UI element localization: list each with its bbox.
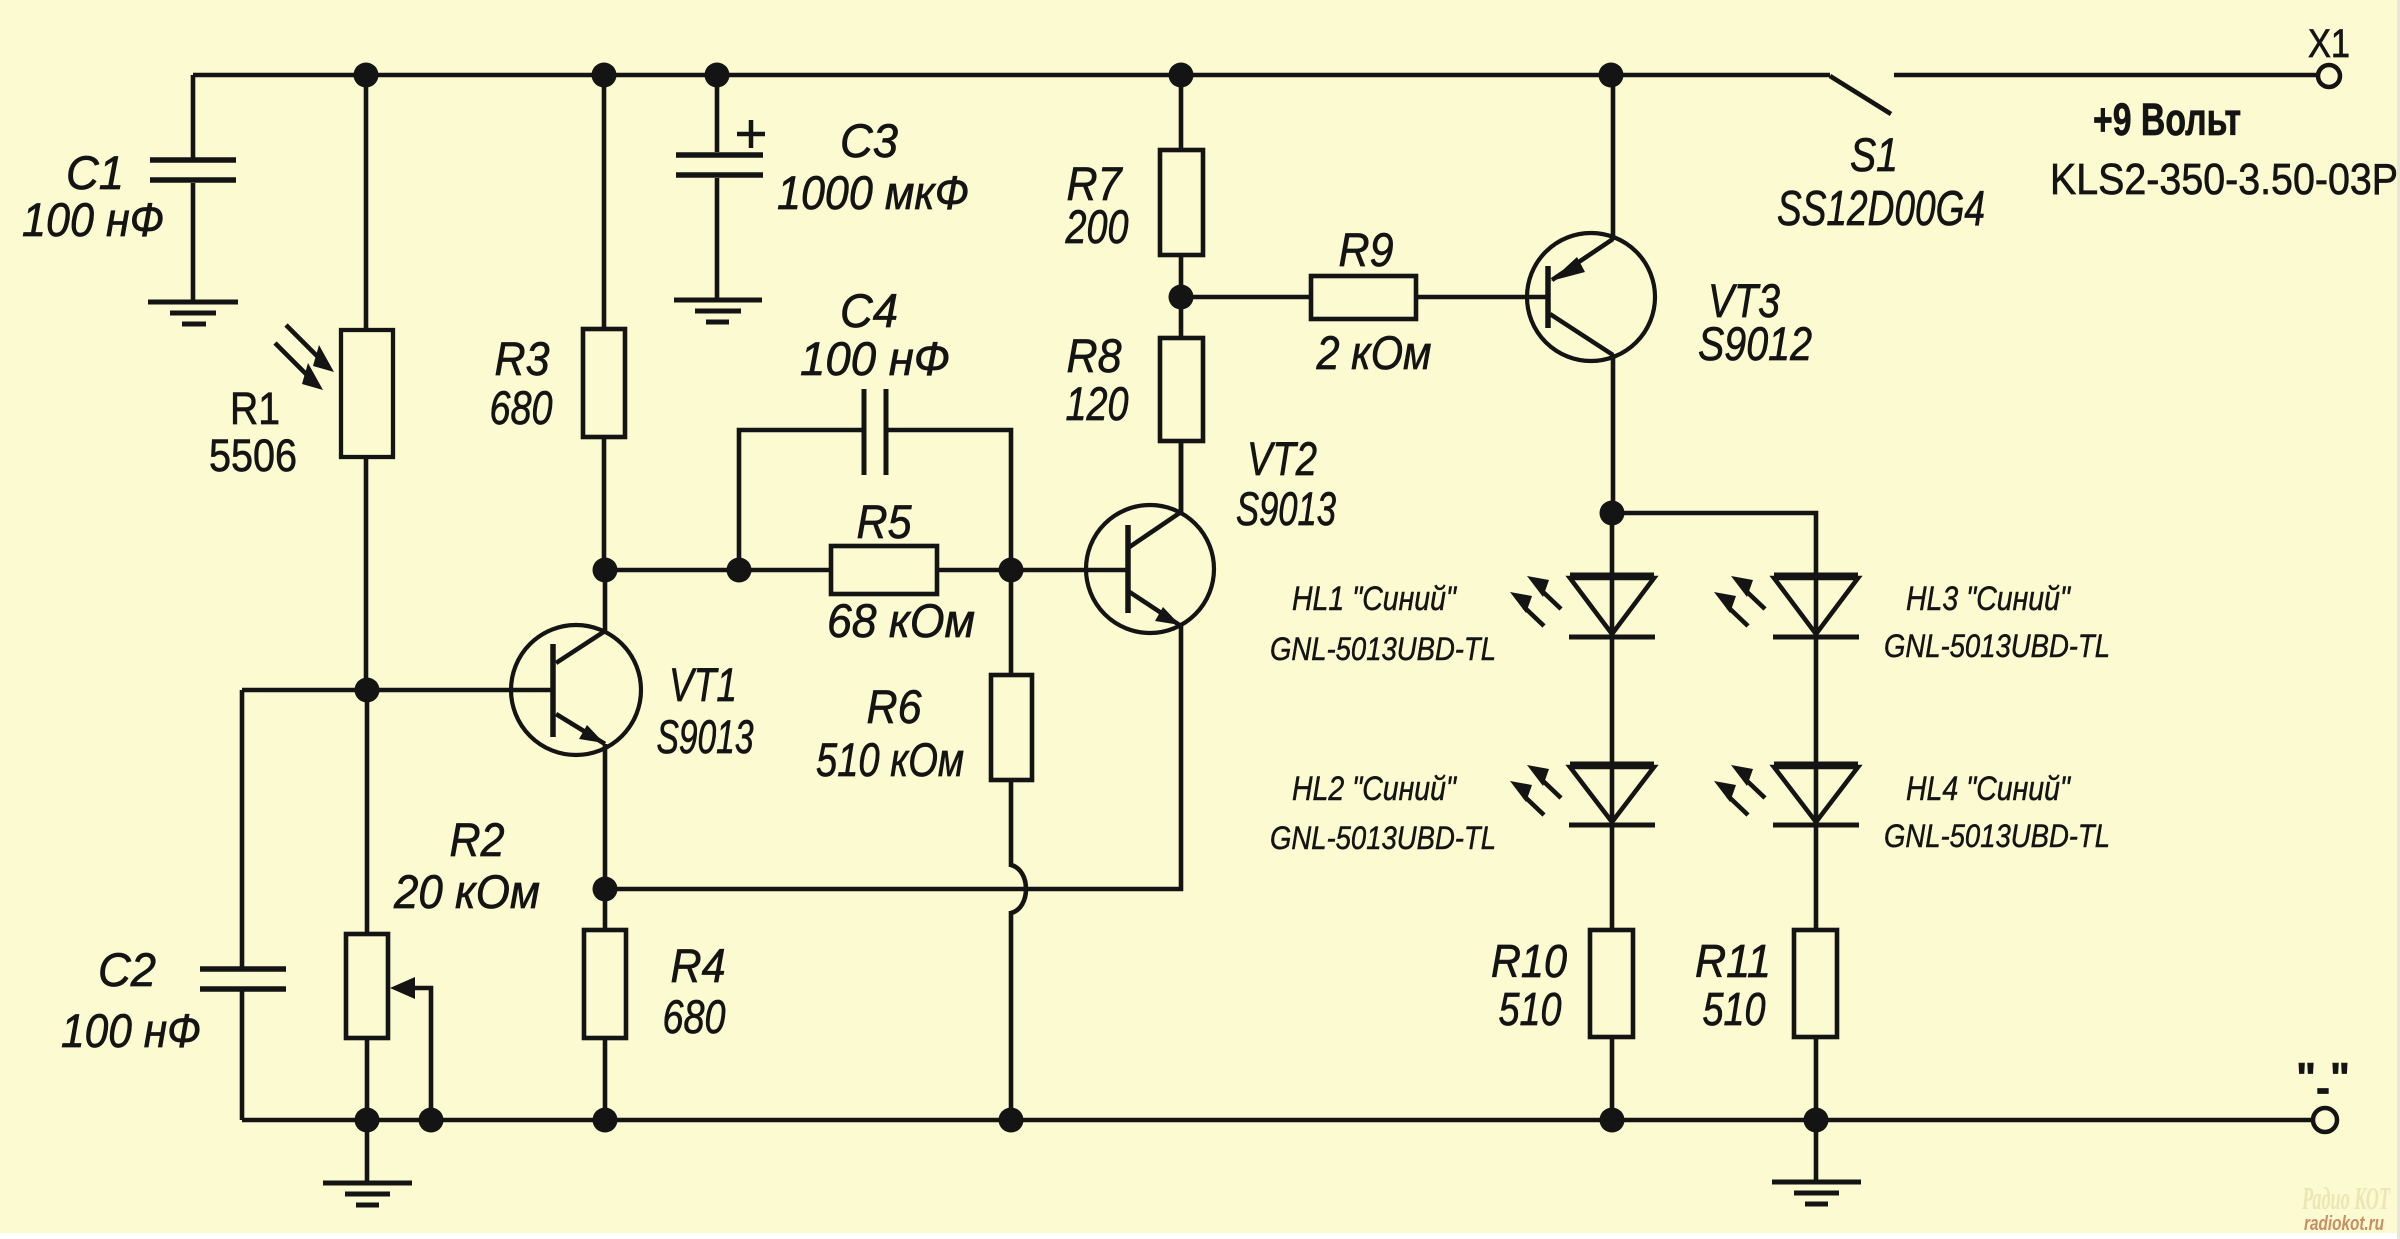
svg-text:HL3 "Синий": HL3 "Синий" [1906,580,2072,618]
wire hop of R6 line over emitter wire [1011,865,1026,913]
node rail / R1-R2 line [355,1108,380,1133]
node top rail / R1 [354,63,379,88]
wire top +9V rail [193,73,1830,78]
LED HL4 cathode bar [1773,823,1859,828]
capacitor C2 plates [200,969,286,989]
svg-text:R11: R11 [1695,935,1771,987]
transistor VT3 base bar [1545,266,1551,328]
resistor R7 body [1160,150,1203,255]
wire C2 top / VT1 base wire [242,688,553,693]
wire C2 bottom lead to rail [240,991,245,1120]
svg-text:2 кОм: 2 кОм [1316,326,1432,379]
resistor R9 body [1311,276,1416,319]
LED HL3 anode bar [1774,573,1858,578]
svg-text:R10: R10 [1491,935,1567,987]
switch S1 lever [1830,76,1891,114]
LED HL2 emission arrow 1 [1541,779,1561,798]
LED HL3 triangle [1774,578,1858,634]
svg-text:X1: X1 [2308,22,2350,66]
wire R6 bottom lead above crossing [1009,780,1014,867]
LED HL1 emission arrow 1 [1541,590,1561,609]
node C4 left / R5 left [727,558,752,583]
svg-text:HL2 "Синий": HL2 "Синий" [1292,770,1458,808]
wire VT3 emitter to top rail [1611,75,1616,240]
wire HL3/HL4/R11 column [1814,575,1819,1120]
svg-text:680: 680 [663,990,726,1043]
svg-text:C4: C4 [840,284,898,337]
svg-text:R6: R6 [867,680,923,733]
resistor R4 body [584,930,626,1038]
wire R1 top lead [364,75,369,330]
photoresistor R1 light arrow 2 [275,343,309,377]
node R1 line / VT1 base [355,678,380,703]
svg-text:100 нФ: 100 нФ [800,332,950,385]
svg-text:R4: R4 [671,939,726,992]
LED HL3 emission arrow 2 [1728,607,1748,626]
terminal X1 circle [2318,65,2340,87]
wire R9 left lead [1181,295,1311,300]
svg-text:680: 680 [490,381,553,434]
svg-text:GNL-5013UBD-TL: GNL-5013UBD-TL [1270,631,1496,667]
capacitor C1 [150,160,236,180]
potentiometer R2 wiper arrow [390,977,415,999]
transistor VT3 circle [1527,233,1655,361]
scan edge artifact bottom white strip [0,1233,2400,1239]
node top rail / VT3 emitter [1599,63,1624,88]
svg-text:S9012: S9012 [1698,317,1812,370]
LED HL3 cathode bar [1773,635,1859,640]
transistor VT1 base bar [550,644,556,737]
wire C4 loop left side [739,430,862,570]
svg-text:S9013: S9013 [1236,482,1336,535]
photoresistor R1 light arrow 1 [286,325,320,359]
svg-text:68 кОм: 68 кОм [827,594,975,647]
wire VT2 emitter down and left to VT1 emitter node [605,626,1181,889]
node rail / R11 [1804,1108,1829,1133]
node VT3 collector / LED branches [1600,501,1625,526]
LED HL4 emission arrow 1 [1745,779,1765,798]
svg-text:+9 Вольт: +9 Вольт [2093,94,2241,145]
transistor VT1 emitter diagonal [556,714,605,744]
svg-text:radiokot.ru: radiokot.ru [2304,1213,2384,1235]
svg-text:510 кОм: 510 кОм [816,733,964,786]
LED HL1 anode bar [1570,573,1654,578]
wire R7 top lead [1179,75,1184,150]
transistor VT2 emitter diagonal [1128,591,1181,626]
node rail / R2 wiper [419,1108,444,1133]
scan edge artifact right edge [2397,0,2400,1239]
node rail / R10 [1600,1108,1625,1133]
LED HL4 triangle [1774,767,1858,822]
wire R3 top lead [602,75,607,329]
wire R2 wiper lead [413,988,431,1120]
capacitor C4 plates [864,389,886,475]
svg-text:100 нФ: 100 нФ [61,1004,201,1057]
svg-text:S1: S1 [1850,128,1898,181]
wire C1 bottom lead [191,183,196,300]
wire R8 bottom to VT2 collector [1179,441,1184,513]
svg-text:Радио КОТ: Радио КОТ [2301,1180,2390,1216]
transistor VT3 collector diagonal [1550,314,1613,355]
wire R3 bottom lead to VT1 collector node [602,437,607,570]
svg-text:R5: R5 [857,495,913,548]
LED HL4 emission arrow 2 [1728,796,1748,815]
resistor R11 body [1794,930,1837,1037]
svg-text:GNL-5013UBD-TL: GNL-5013UBD-TL [1270,820,1496,856]
svg-text:KLS2-350-3.50-03P: KLS2-350-3.50-03P [2050,155,2398,204]
LED HL2 emission arrow 2 [1524,796,1544,815]
wire C4 loop right side [888,430,1011,558]
LED HL1 emission arrow 2 [1524,607,1544,626]
svg-text:120: 120 [1066,377,1129,430]
transistor VT1 collector diagonal [556,631,605,663]
wire R1 bottom lead to VT1 base node [364,457,369,690]
svg-text:200: 200 [1065,200,1129,253]
wire R2 bottom lead [365,1038,370,1120]
LED HL2 triangle [1570,767,1654,822]
svg-text:5506: 5506 [209,430,297,481]
transistor VT2 collector diagonal [1128,512,1181,548]
resistor R10 body [1590,930,1633,1037]
wire C3 top lead [715,75,720,152]
LED HL1 cathode bar [1569,635,1655,640]
node R5 right / R6 / C4 right [999,558,1024,583]
svg-text:510: 510 [1703,983,1766,1035]
svg-text:20 кОм: 20 кОм [393,865,540,918]
transistor VT3 emitter diagonal [1552,239,1613,280]
wire R5 right to VT2 base [937,568,1128,573]
ground symbol bottom right [1814,1120,1819,1181]
resistor R6 body [991,675,1032,780]
svg-text:R3: R3 [495,332,550,385]
transistor VT2 emitter arrow [1155,607,1180,625]
capacitor C3 plates [676,155,763,175]
transistor VT1 circle [511,625,641,755]
wire R6 line to bottom rail [1009,911,1014,1120]
svg-text:1000 мкФ: 1000 мкФ [777,166,969,219]
svg-text:HL1 "Синий": HL1 "Синий" [1292,580,1458,618]
svg-text:100 нФ: 100 нФ [22,193,164,246]
svg-text:VT2: VT2 [1247,432,1317,485]
transistor VT1 emitter arrow [579,725,604,743]
ground below C3 [674,300,762,322]
ground symbol bottom left [365,1120,370,1182]
resistor R1 photoresistor body [341,330,393,457]
wire C2 vertical top lead [240,690,245,967]
svg-text:GNL-5013UBD-TL: GNL-5013UBD-TL [1884,818,2110,854]
node top rail / R3 [592,63,617,88]
wire VT2 collector up to R8 [1179,441,1184,512]
wire VT1 collector up [603,570,608,631]
wire C3 bottom lead [715,178,720,298]
svg-text:C2: C2 [98,943,156,996]
transistor VT2 circle [1086,505,1214,633]
transistor VT3 emitter arrow (PNP, points to base) [1551,257,1585,281]
ground below C1 [148,302,238,324]
node VT1 emitter / R4 / VT2 emitter wire [593,877,618,902]
LED HL3 emission arrow 1 [1745,590,1765,609]
wire R7 bottom to R8 top through node [1179,255,1184,338]
node R7/R8/R9 [1169,285,1194,310]
wire R2 top lead [365,690,370,934]
resistor R5 body [831,546,937,594]
svg-text:GNL-5013UBD-TL: GNL-5013UBD-TL [1884,628,2110,664]
svg-text:S9013: S9013 [657,710,754,763]
svg-text:VT1: VT1 [669,658,737,711]
wire R4 top lead [603,889,608,930]
C3 polarity plus sign [737,120,765,148]
svg-text:R1: R1 [230,383,280,434]
wire HL1/HL2/R10 column [1610,513,1615,1120]
svg-text:510: 510 [1499,983,1562,1035]
transistor VT2 base bar [1125,525,1131,613]
wire VT1 collector node to R5 [605,568,831,573]
LED HL4 anode bar [1774,762,1858,767]
wire LED branch top to HL3 column [1612,513,1816,575]
svg-text:C1: C1 [66,146,124,199]
LED HL2 anode bar [1570,762,1654,767]
node top rail / C3 [705,63,730,88]
terminal minus circle [2313,1108,2337,1132]
wire R6 top lead [1009,570,1014,675]
svg-text:R2: R2 [450,813,505,866]
wire VT3 collector down to LED node [1611,354,1616,513]
resistor R8 body [1160,338,1203,441]
svg-text:R9: R9 [1339,223,1394,276]
node rail / R4 [593,1108,618,1133]
LED HL1 triangle [1570,578,1654,634]
svg-text:HL4 "Синий": HL4 "Синий" [1906,770,2072,808]
LED HL2 cathode bar [1569,823,1655,828]
wire C1 top lead [191,75,196,158]
svg-text:R8: R8 [1067,329,1122,382]
potentiometer R2 body [346,934,388,1038]
resistor R3 body [583,329,625,437]
wire VT1 emitter down [603,744,608,889]
wire R9 right lead to VT3 base [1416,295,1548,300]
wire R4 bottom lead [603,1038,608,1120]
svg-text:SS12D00G4: SS12D00G4 [1777,182,1985,236]
node top rail / R7 [1169,63,1194,88]
wire bottom ground rail [242,1118,2313,1123]
svg-text:C3: C3 [840,114,898,167]
node R3 / VT1 collector [593,558,618,583]
node rail / R6 [999,1108,1024,1133]
wire S1 to X1 terminal [1894,73,2317,78]
